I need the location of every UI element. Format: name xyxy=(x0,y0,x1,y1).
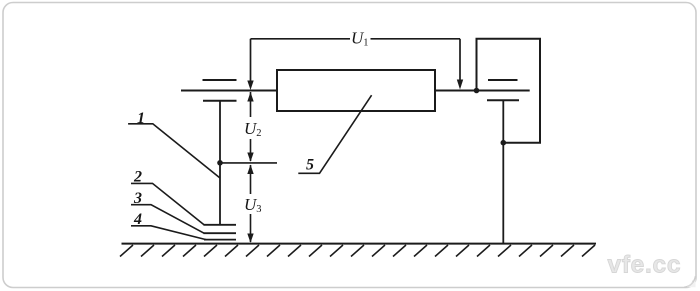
node dot right loop xyxy=(501,140,507,146)
page curl bottom-right corner (decorative) xyxy=(684,276,696,287)
tick U2/U3 boundary xyxy=(220,162,277,164)
capacitor right top plate xyxy=(488,79,518,81)
leader line label 1 xyxy=(128,124,220,178)
leader line label 2 xyxy=(131,183,204,224)
svg-text:2: 2 xyxy=(133,169,142,186)
dimension U2 lower segment xyxy=(250,139,252,161)
arrowhead U2 bottom (down) xyxy=(247,153,253,162)
arrowhead U2 top (up) xyxy=(247,92,253,102)
arrowhead U1 left (down) xyxy=(247,81,253,91)
wire U1 right drop xyxy=(459,39,461,81)
leader line label 3 xyxy=(131,205,204,234)
node dot right wire junction xyxy=(474,88,480,94)
terminal line 4 xyxy=(204,239,236,241)
arrowhead U3 top (up) xyxy=(247,165,253,175)
capacitor left bottom plate xyxy=(203,100,237,102)
wire main right xyxy=(435,90,530,92)
wire left stem xyxy=(219,101,221,225)
svg-text:5: 5 xyxy=(306,157,314,174)
leader line label 4 xyxy=(131,226,206,240)
right loop wire xyxy=(477,39,541,143)
wire U1 top left segment xyxy=(251,38,351,40)
svg-text:3: 3 xyxy=(133,190,142,207)
wire main left xyxy=(181,90,277,92)
wire U1 top right segment xyxy=(371,38,461,40)
dimension U3 upper segment xyxy=(250,165,252,194)
dimension U3 lower segment xyxy=(250,214,252,242)
svg-text:vfe.cc: vfe.cc xyxy=(608,252,682,279)
leader line to label 5 xyxy=(298,95,371,173)
arrowhead U1 right (down) xyxy=(457,80,463,90)
box component 5 xyxy=(277,70,435,111)
svg-text:1: 1 xyxy=(137,110,145,127)
dimension U2 upper segment xyxy=(250,92,252,117)
capacitor right bottom plate xyxy=(487,99,519,101)
node dot left tap xyxy=(217,160,223,166)
terminal line 3 xyxy=(204,232,237,234)
ground hatching xyxy=(120,245,595,257)
ground line xyxy=(122,243,597,245)
capacitor left top plate xyxy=(203,79,237,81)
svg-text:4: 4 xyxy=(133,211,142,228)
arrowhead U3 bottom (down) xyxy=(247,234,253,243)
wire U1 left drop xyxy=(250,39,252,82)
wire right stem to ground xyxy=(502,100,504,243)
terminal line 2 xyxy=(204,224,237,226)
